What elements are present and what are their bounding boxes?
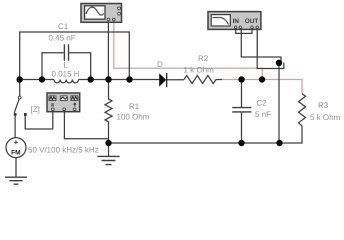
svg-text:5 k Ohm: 5 k Ohm: [310, 113, 341, 122]
svg-text:R1: R1: [129, 102, 140, 111]
svg-text:100 Ohm: 100 Ohm: [117, 112, 150, 121]
svg-text:0.45 nF: 0.45 nF: [49, 34, 76, 43]
svg-text:D: D: [157, 60, 163, 69]
svg-text:R2: R2: [198, 54, 209, 63]
svg-text:50 V/100 kHz/5 kHz: 50 V/100 kHz/5 kHz: [28, 145, 99, 154]
svg-text:1 k Ohm: 1 k Ohm: [184, 65, 215, 74]
svg-text:C1: C1: [58, 22, 69, 31]
svg-text:IN: IN: [233, 18, 240, 25]
svg-text:FM: FM: [11, 149, 21, 156]
svg-text:R3: R3: [318, 101, 329, 110]
svg-text:C2: C2: [257, 98, 268, 107]
svg-text:5 nF: 5 nF: [255, 110, 271, 119]
svg-text:OUT: OUT: [245, 18, 259, 25]
svg-text:L: L: [64, 61, 69, 70]
svg-text:0.015 H: 0.015 H: [52, 69, 80, 78]
svg-text:[Z]: [Z]: [31, 105, 40, 114]
